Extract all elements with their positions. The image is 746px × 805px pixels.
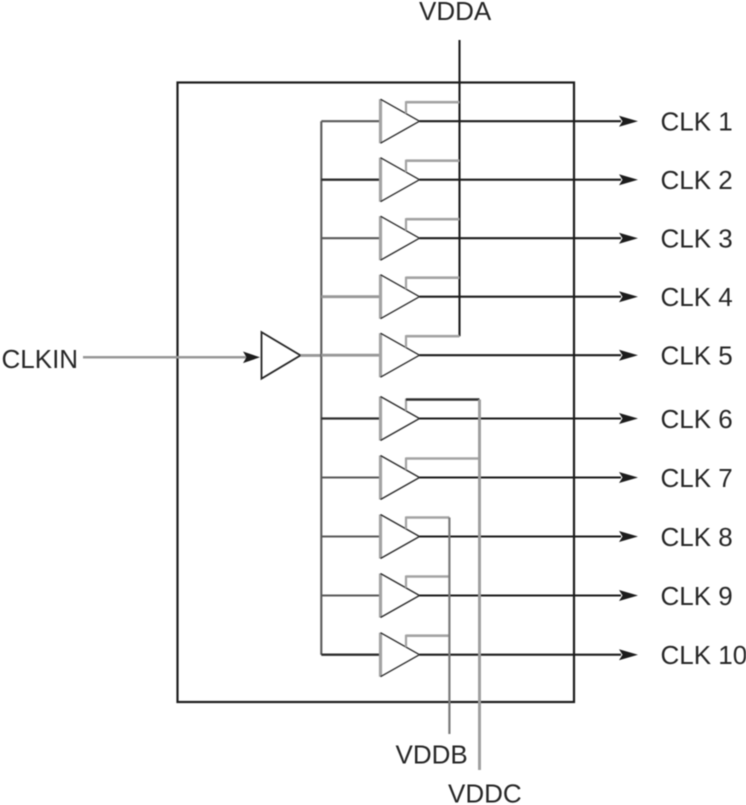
buffer 2 (381, 158, 420, 202)
buffer 10 (381, 633, 420, 677)
svg-text:CLKIN: CLKIN (2, 344, 79, 374)
wire stub to buffer 5 (321, 354, 380, 357)
wire CLK 4 output (420, 296, 622, 298)
svg-text:VDDA: VDDA (419, 0, 492, 26)
wire stub to buffer 7 (321, 476, 380, 478)
wire stub to buffer 4 (321, 295, 380, 298)
wire CLK 9 output (420, 594, 622, 596)
CLK 6 arrowhead (619, 413, 638, 424)
wire CLK 5 output (420, 354, 622, 356)
buffer 1 supply tap (406, 101, 460, 113)
CLKIN arrowhead (243, 352, 260, 364)
buffer 3 supply tap (406, 218, 460, 230)
svg-text:CLK 10: CLK 10 (661, 640, 746, 670)
IC boundary box (178, 83, 575, 703)
CLK 1 arrowhead (619, 116, 638, 127)
buffer 9 (381, 574, 420, 618)
wire CLK 1 output (420, 120, 622, 122)
buffer 4 supply tap (406, 277, 460, 289)
svg-text:CLK 8: CLK 8 (661, 522, 733, 552)
wire stub to buffer 6 (321, 417, 380, 419)
wire CLK 8 output (420, 535, 622, 537)
wire stub to buffer 8 (321, 535, 380, 537)
buffer 8 supply tap (406, 517, 449, 529)
svg-text:CLK 9: CLK 9 (661, 581, 733, 611)
svg-text:CLK 5: CLK 5 (661, 341, 733, 371)
VDDC supply wire (478, 400, 481, 771)
buffer 5 (381, 333, 420, 377)
buffer 6 supply tap (406, 399, 480, 411)
buffer 6 (381, 397, 420, 441)
buffer 3 (381, 216, 420, 260)
buffer 8 (381, 515, 420, 559)
svg-text:VDDB: VDDB (396, 740, 468, 770)
buffer 10 supply tap (406, 635, 449, 647)
wire CLK 2 output (420, 179, 622, 181)
wire input buffer output to bus (301, 354, 322, 357)
input buffer U0 (262, 332, 301, 379)
CLK 3 arrowhead (619, 233, 638, 244)
svg-text:CLK 7: CLK 7 (661, 463, 733, 493)
wire CLK 3 output (420, 237, 622, 239)
svg-text:CLK 6: CLK 6 (661, 404, 733, 434)
svg-text:CLK 3: CLK 3 (661, 224, 733, 254)
CLK 7 arrowhead (619, 472, 638, 483)
wire CLK 6 output (420, 417, 622, 419)
buffer 7 supply tap (406, 458, 480, 470)
distribution bus (320, 121, 322, 655)
buffer 9 supply tap (406, 576, 449, 588)
svg-text:CLK 2: CLK 2 (661, 165, 733, 195)
buffer 5 supply tap (406, 335, 460, 347)
buffer 7 (381, 456, 420, 500)
VDDB supply wire (448, 518, 450, 735)
wire stub to buffer 3 (321, 237, 380, 239)
wire stub to buffer 2 (321, 179, 380, 181)
CLK 8 arrowhead (619, 531, 638, 542)
CLK 4 arrowhead (619, 291, 638, 302)
svg-text:VDDC: VDDC (448, 779, 522, 805)
wire CLK 7 output (420, 476, 622, 478)
buffer 2 supply tap (406, 160, 460, 172)
buffer 4 (381, 275, 420, 319)
svg-text:CLK 1: CLK 1 (661, 107, 733, 137)
wire stub to buffer 10 (321, 654, 380, 656)
wire CLK 10 output (420, 654, 622, 656)
CLK 10 arrowhead (619, 649, 638, 660)
CLK 2 arrowhead (619, 174, 638, 185)
buffer 1 (381, 99, 420, 143)
wire stub to buffer 9 (321, 594, 380, 596)
svg-text:CLK 4: CLK 4 (661, 282, 733, 312)
CLK 9 arrowhead (619, 590, 638, 601)
VDDA supply wire (458, 40, 460, 336)
CLKIN input wire (83, 356, 248, 359)
CLK 5 arrowhead (619, 350, 638, 361)
wire stub to buffer 1 (321, 120, 380, 122)
